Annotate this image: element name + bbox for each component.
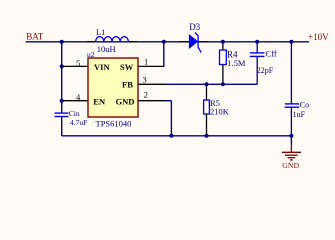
resistor R5: [204, 84, 230, 136]
svg-text:FB: FB: [122, 80, 133, 90]
junction R4/top rail: [221, 40, 225, 44]
svg-text:EN: EN: [93, 96, 106, 106]
pin 3 FB stub: [138, 83, 165, 85]
svg-text:GND: GND: [282, 161, 299, 170]
svg-text:VIN: VIN: [94, 62, 110, 72]
svg-text:5: 5: [76, 58, 80, 68]
junction pin4/left bus: [60, 99, 64, 103]
wire left vertical bus BAT to Cin: [61, 42, 63, 113]
svg-text:4.7uF: 4.7uF: [70, 118, 87, 127]
svg-text:1: 1: [144, 56, 148, 66]
pin 4 EN stub: [62, 100, 88, 102]
svg-text:22pF: 22pF: [257, 66, 274, 75]
capacitor Cin: [55, 109, 88, 127]
svg-text:GND: GND: [116, 96, 135, 106]
capacitor Cff: [250, 42, 277, 85]
svg-text:BAT: BAT: [26, 31, 44, 41]
svg-text:1.5M: 1.5M: [227, 58, 246, 68]
svg-text:Cff: Cff: [266, 49, 277, 59]
svg-text:TPS61040: TPS61040: [96, 118, 132, 128]
svg-text:SW: SW: [120, 62, 134, 72]
wire BAT top rail: [26, 41, 309, 43]
junction Cff/top rail: [255, 40, 259, 44]
wire SW riser to top rail: [163, 42, 165, 67]
junction R4/FB net: [221, 82, 225, 86]
resistor R4: [220, 42, 246, 84]
junction R5/bottom rail: [205, 134, 209, 138]
junction Co/top rail: [289, 40, 293, 44]
svg-text:2: 2: [144, 90, 148, 100]
pin 1 SW stub: [138, 65, 165, 67]
pin 5 VIN stub: [62, 65, 88, 67]
wire GND pin drop to bottom rail: [170, 101, 172, 136]
svg-text:u2: u2: [87, 50, 95, 59]
svg-text:D3: D3: [189, 22, 200, 32]
svg-text:Co: Co: [300, 100, 309, 109]
IC U2 TPS61040: [87, 50, 138, 128]
svg-text:3: 3: [143, 75, 147, 85]
ground GND: [282, 136, 301, 170]
junction SW riser/top rail: [162, 40, 166, 44]
junction pin5/left bus: [60, 64, 64, 68]
wire bottom ground rail: [62, 135, 292, 137]
junction BAT/left bus: [60, 40, 64, 44]
junction GND drop/bottom rail: [169, 134, 173, 138]
svg-text:10uH: 10uH: [97, 44, 116, 54]
wire GND pin to bottom rail horizontal: [165, 100, 171, 102]
svg-text:Cin: Cin: [69, 109, 80, 118]
svg-text:L1: L1: [96, 27, 105, 37]
wire FB net to Cff: [165, 83, 257, 85]
inductor L1: [87, 27, 137, 54]
pin 2 GND stub: [138, 100, 165, 102]
svg-text:1uF: 1uF: [293, 110, 306, 119]
wire Cin bottom to bottom rail: [61, 117, 63, 136]
junction Co/bottom rail: [289, 134, 293, 138]
svg-text:+10V: +10V: [308, 32, 329, 42]
junction R5/FB net: [205, 82, 209, 86]
capacitor Co: [285, 42, 309, 136]
diode D3 schottky: [179, 22, 208, 53]
svg-text:210K: 210K: [210, 106, 230, 116]
